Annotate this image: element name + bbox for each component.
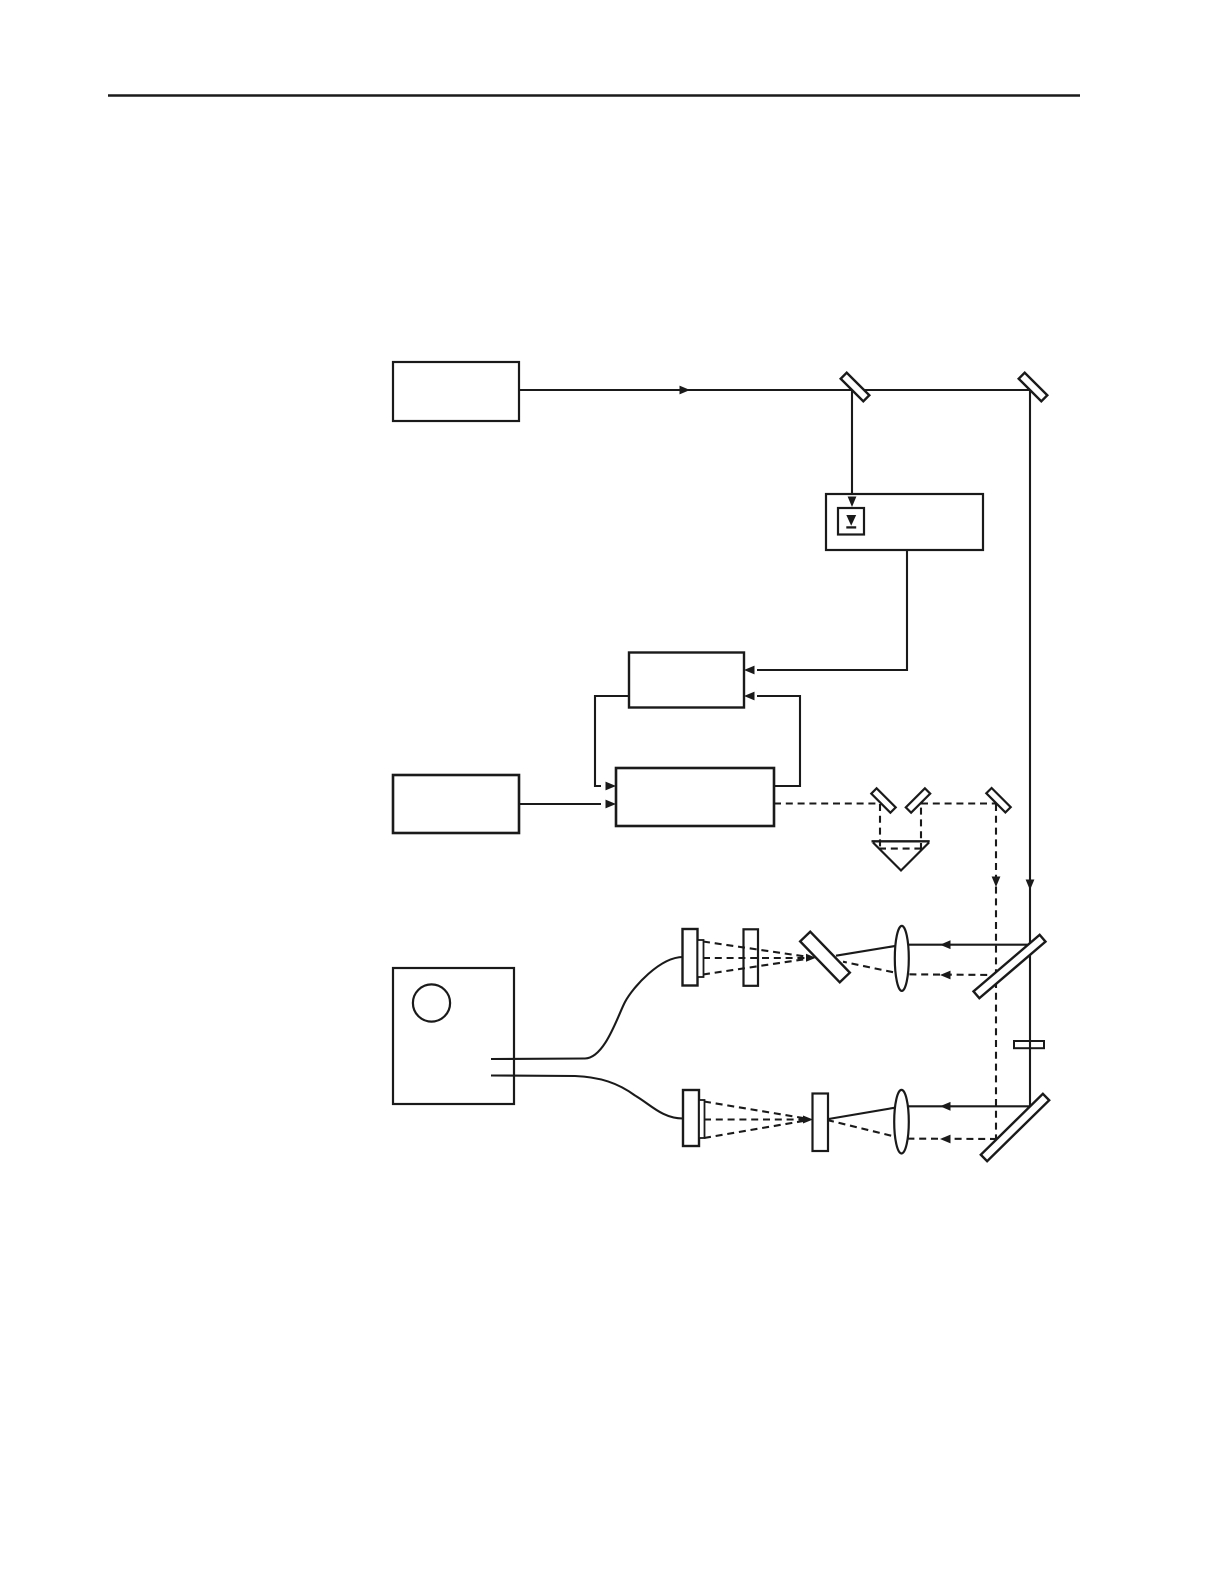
wire servo to controller — [757, 696, 800, 786]
photodiode square — [838, 508, 864, 535]
splitter mirror upper right — [973, 935, 1045, 998]
attenuator plate — [1014, 1041, 1044, 1048]
camera box — [393, 968, 514, 1104]
header rule — [108, 94, 1080, 97]
laser box — [393, 362, 519, 421]
mirror lower right — [981, 1094, 1049, 1161]
fiber upper — [491, 957, 683, 1059]
arrowhead rays into waveplate lower — [803, 1116, 813, 1124]
prism retroreflector — [873, 843, 929, 871]
camera lens circle — [413, 984, 450, 1021]
dashed beam prism up to mirror B — [920, 804, 922, 850]
mirror 1 — [841, 373, 870, 402]
beam dashed lower — [829, 1120, 998, 1139]
mirror A — [871, 788, 895, 812]
fiber lower — [491, 1076, 683, 1119]
driver box — [393, 775, 519, 833]
dashed beam mirror B to mirror C — [921, 802, 996, 804]
dashed beam inside prism — [879, 848, 922, 850]
arrowhead solid lower left — [940, 1102, 951, 1111]
beam solid upper (from splitter to collimator mirror) — [836, 945, 1030, 956]
dashed ray lower bottom — [704, 1121, 806, 1139]
dashed ray lower top — [704, 1102, 806, 1119]
beamsplitter cube upper (tilted plate) — [800, 932, 850, 983]
arrowhead main beam down — [1026, 880, 1035, 891]
wire main beam down right side — [1029, 390, 1031, 1106]
lens lower — [894, 1090, 909, 1154]
wire shutter to controller box — [757, 550, 907, 670]
ferrule upper — [698, 940, 704, 977]
waveplate upper — [744, 929, 759, 986]
dashed ray upper bottom — [703, 959, 806, 975]
beam dashed upper — [843, 962, 999, 975]
arrowhead driver into servo — [606, 800, 617, 809]
mirror B — [906, 788, 930, 812]
shutter box — [826, 494, 983, 550]
wire driver to servo — [519, 803, 601, 805]
ferrule lower — [699, 1100, 705, 1138]
dashed ray upper middle — [703, 957, 806, 959]
arrowhead solid upper left — [940, 940, 951, 949]
arrowhead feedback into servo — [606, 782, 617, 791]
beam solid lower — [829, 1106, 1031, 1119]
arrowhead dashed upper left — [940, 971, 951, 980]
lens upper — [895, 926, 909, 991]
photodiode triangle — [846, 515, 856, 526]
arrowhead into controller bottom — [744, 692, 755, 701]
dashed ray lower middle — [704, 1118, 806, 1120]
fiber coupler lower — [683, 1090, 699, 1146]
arrowhead rays into beamsplitter — [806, 954, 816, 962]
arrowhead into controller top — [744, 666, 755, 675]
mirror C — [986, 788, 1010, 812]
photodiode bar — [846, 526, 856, 528]
fiber coupler upper — [683, 929, 698, 986]
servo box — [616, 768, 774, 826]
mirror 2 — [1019, 373, 1048, 402]
waveplate lower — [813, 1094, 829, 1152]
arrowhead laser beam right — [680, 386, 691, 395]
arrowhead into shutter — [848, 497, 857, 508]
controller box — [629, 653, 744, 708]
wire beam down from mirror 1 to shutter — [851, 390, 853, 496]
wire laser output beam — [519, 389, 1030, 391]
dashed beam mirror C down — [995, 804, 997, 1139]
arrowhead dashed beam down — [992, 877, 1001, 888]
dashed ray upper top — [703, 942, 806, 957]
dashed beam servo to mirror A — [774, 802, 880, 804]
wire controller feedback to servo — [595, 696, 629, 786]
arrowhead dashed lower left — [940, 1135, 951, 1144]
dashed beam mirror A down to prism — [879, 804, 881, 850]
